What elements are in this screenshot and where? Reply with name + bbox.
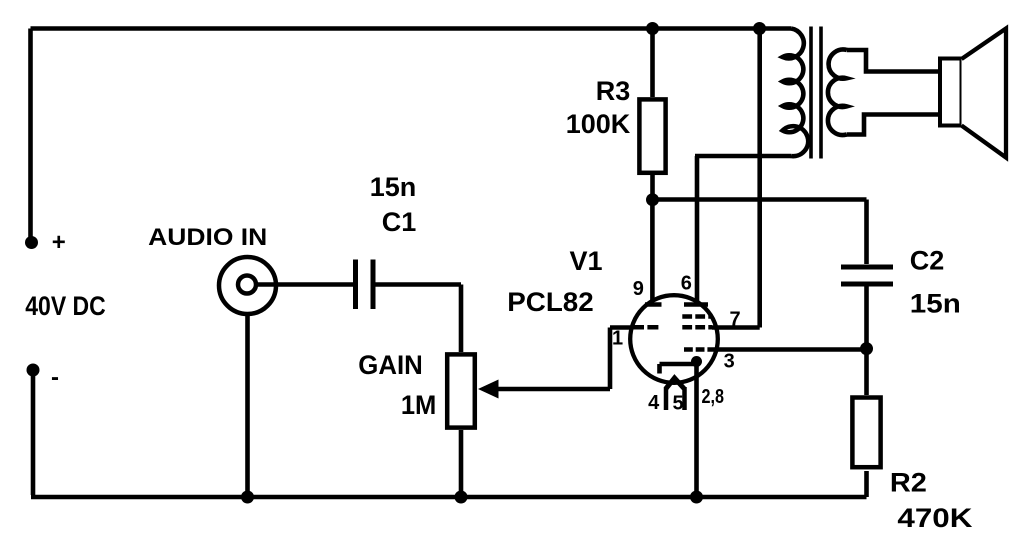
svg-text:6: 6 (681, 273, 692, 295)
svg-text:3: 3 (724, 351, 735, 373)
svg-text:PCL82: PCL82 (507, 287, 593, 317)
wire pot to rail (459, 430, 464, 497)
svg-text:100K: 100K (566, 109, 631, 139)
wire secondary bottom to speaker (847, 115, 941, 135)
tube V1 heater symbol (666, 378, 684, 389)
svg-text:15n: 15n (910, 289, 961, 319)
wire transformer to pin 6 (695, 156, 700, 302)
transformer T1 core (811, 27, 821, 159)
wire cathode to rail (694, 363, 699, 497)
node cathode junction (691, 356, 702, 367)
svg-text:-: - (51, 364, 59, 391)
wire node to pin 9 (650, 200, 655, 302)
wire secondary top to speaker (847, 50, 940, 72)
speaker LS1 horn (962, 29, 1007, 158)
svg-text:R2: R2 (890, 468, 927, 498)
wire wiper to pin 1 (610, 328, 632, 390)
svg-text:R3: R3 (596, 76, 631, 106)
svg-text:2,8: 2,8 (702, 386, 725, 408)
wire pin 7 to top rail (712, 29, 760, 328)
svg-text:1: 1 (612, 328, 623, 350)
tube V1 envelope (630, 295, 718, 383)
wire R2 to rail (864, 471, 869, 497)
node junction top rail / R3 (646, 22, 659, 35)
wire pin 3 to C2/R2 node (712, 347, 867, 352)
svg-text:C2: C2 (910, 246, 945, 276)
transformer T1 primary winding (783, 29, 809, 157)
wire C2 to node (864, 284, 869, 349)
svg-text:AUDIO IN: AUDIO IN (148, 224, 267, 251)
wire left bottom (31, 370, 36, 495)
wire R3 to node (650, 175, 655, 200)
node junction pot/rail (455, 491, 468, 504)
transformer T1 secondary winding (828, 49, 847, 135)
tube V1 heater pin 4 stub (664, 387, 669, 410)
node junction C2/R2/pin3 (860, 342, 873, 355)
svg-text:+: + (52, 229, 66, 256)
node junction cathode/rail (690, 491, 703, 504)
tube V1 triode cathode pins 2,8 (660, 364, 697, 374)
tube V1 triode plate bar pin 9 (645, 302, 662, 307)
svg-text:4: 4 (648, 392, 660, 414)
tube V1 pentode plate bar pin 6 (684, 302, 708, 307)
svg-text:470K: 470K (897, 503, 973, 533)
tube V1 heater pin 5 stub (682, 387, 687, 410)
resistor R3 body (639, 99, 665, 172)
wire top rail (31, 26, 792, 31)
wire primary bottom to pin 6 (695, 154, 791, 159)
potentiometer body (447, 354, 475, 427)
svg-text:40V DC: 40V DC (25, 291, 106, 321)
svg-text:7: 7 (730, 309, 741, 331)
capacitor C2 plates (841, 267, 893, 284)
node junction R3 / C2 / pin9 (646, 193, 659, 206)
tube V1 triode grid pin 1 dashes (633, 325, 659, 330)
node + terminal (25, 236, 38, 249)
wire jack to C1 (256, 282, 353, 287)
svg-text:5: 5 (672, 393, 683, 415)
resistor R2 (864, 349, 869, 395)
svg-text:1M: 1M (401, 390, 437, 420)
svg-text:GAIN: GAIN (358, 350, 423, 380)
connector J1 jack inner (238, 276, 256, 294)
svg-text:15n: 15n (370, 172, 417, 202)
svg-text:9: 9 (633, 278, 644, 300)
node junction jack/rail (241, 491, 254, 504)
wire bottom rail (31, 495, 867, 500)
connector J1 jack outer (219, 257, 276, 314)
wire C1 to pot (375, 285, 461, 353)
wire node to C2 (653, 200, 867, 265)
node - terminal (27, 364, 40, 377)
node junction top rail / pin7 wire (753, 22, 766, 35)
svg-text:C1: C1 (382, 207, 417, 237)
capacitor C1 plates (356, 260, 374, 310)
svg-text:V1: V1 (569, 246, 602, 276)
potentiometer wiper arrow (497, 387, 610, 392)
tube V1 pentode grid row A (682, 314, 712, 319)
wire top rail to R3 (650, 29, 655, 98)
speaker LS1 body (940, 59, 962, 126)
tube V1 pentode grid row B pin 7 (682, 325, 712, 330)
wire left rail to + terminal (28, 29, 33, 241)
wire jack to ground rail (245, 314, 250, 497)
tube V1 pentode cathode row pin 3 (684, 347, 712, 352)
